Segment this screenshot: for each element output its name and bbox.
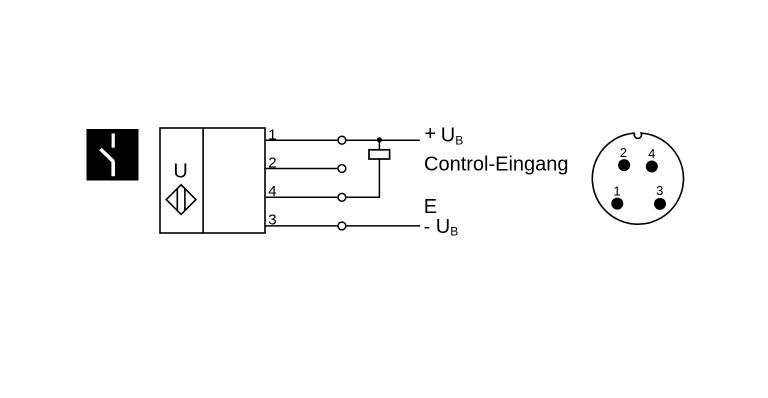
- svg-text:- UB: - UB: [424, 216, 459, 239]
- sensor body U1: [160, 128, 265, 233]
- connector pin 4: [646, 161, 658, 173]
- wire pin3 to -UB: [347, 225, 421, 227]
- connector pin 1: [611, 198, 623, 210]
- switch icon contact symbol: [100, 133, 113, 176]
- wire pin2 to terminal: [265, 168, 337, 170]
- wire pin1 to terminal: [265, 139, 337, 141]
- connector pin 3: [654, 198, 666, 210]
- svg-text:3: 3: [656, 183, 663, 198]
- svg-text:2: 2: [620, 145, 627, 160]
- wire junction to resistor: [378, 140, 380, 150]
- wire pin3 to terminal: [265, 225, 337, 227]
- connector pin 2: [618, 159, 630, 171]
- svg-text:U: U: [173, 161, 187, 183]
- svg-text:+: +: [424, 123, 436, 145]
- wire pin1 to +UB: [347, 139, 420, 141]
- terminal circle pin3: [338, 222, 346, 230]
- resistor R1: [369, 150, 390, 159]
- svg-text:4: 4: [648, 146, 655, 161]
- wire resistor to pin4 line: [347, 159, 380, 197]
- svg-text:Control-Eingang: Control-Eingang: [424, 154, 569, 176]
- terminal circle pin4: [338, 193, 346, 201]
- connector housing circle with keying notch: [592, 133, 683, 224]
- sensor divider: [202, 128, 204, 233]
- amplifier symbol (diamond): [166, 185, 196, 215]
- wire pin4 to terminal: [265, 196, 337, 198]
- switch icon black square: [87, 129, 139, 181]
- junction dot: [377, 137, 382, 142]
- svg-text:UB: UB: [441, 125, 463, 148]
- svg-text:1: 1: [613, 183, 620, 198]
- svg-text:E: E: [424, 196, 437, 218]
- terminal circle pin2: [338, 165, 346, 173]
- terminal circle pin1: [338, 136, 346, 144]
